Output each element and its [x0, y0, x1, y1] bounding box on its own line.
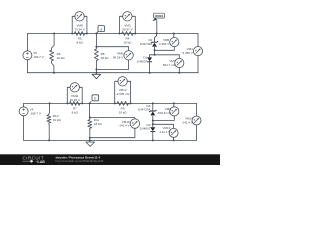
svg-text:169.7 V: 169.7 V: [33, 55, 43, 59]
voltmeter VM10: [130, 119, 139, 128]
wire VM3 loop left: [120, 16, 123, 33]
svg-text:NODES: NODES: [155, 15, 164, 18]
svg-text:18 kΩ: 18 kΩ: [94, 122, 103, 126]
svg-text:a: a: [100, 28, 102, 32]
node R6-bottom: [53, 72, 55, 74]
svg-text:1N4733A: 1N4733A: [138, 108, 151, 112]
node mid-bottom (bottom circuit): [89, 139, 91, 141]
svg-text:LAB: LAB: [38, 160, 46, 164]
diode D1: [147, 61, 152, 63]
svg-text:http://circuitlab.com/c/53dfe5: http://circuitlab.com/c/53dfe5e9edc4b: [56, 159, 104, 163]
wire D1 top lead: [149, 55, 151, 57]
svg-text:5.456 V: 5.456 V: [182, 51, 192, 55]
node D4-VM13: [152, 123, 154, 125]
voltmeter VM13: [169, 128, 178, 137]
wire R10 branch bottom: [48, 124, 50, 140]
voltmeter VM11: [70, 83, 79, 92]
wire V4 bottom lead: [23, 115, 25, 140]
resistor R8: [94, 47, 98, 63]
svg-text:8 kΩ: 8 kΩ: [72, 110, 79, 114]
node R4-right: [134, 33, 136, 35]
wire VM10 loop top: [90, 118, 135, 119]
wire D3 bottom lead: [152, 132, 154, 140]
voltage source V5: [23, 51, 32, 60]
svg-text:b: b: [94, 97, 96, 101]
node VM7-bottom: [178, 72, 180, 74]
wire VM5 bottom lead: [155, 47, 175, 51]
node tag b: [92, 95, 99, 101]
node D2-midline: [154, 54, 156, 56]
flag pole: [156, 20, 158, 33]
resistor R9: [115, 101, 131, 105]
voltage source V4: [19, 107, 28, 116]
wire V5 top lead: [26, 34, 28, 52]
svg-text:8 kΩ: 8 kΩ: [76, 40, 83, 44]
svg-text:1N4733A: 1N4733A: [140, 42, 153, 46]
diode D4 (zener): [149, 110, 156, 112]
wire mid branch bottom: [95, 63, 97, 73]
svg-text:49.29 V: 49.29 V: [70, 98, 80, 102]
voltmeter VM7: [175, 58, 184, 67]
wire V5 bottom lead: [26, 59, 28, 72]
svg-text:-504.8 mV: -504.8 mV: [157, 111, 171, 115]
wire VM12 loop right: [127, 81, 130, 103]
node VM13-bottom: [173, 139, 175, 141]
svg-text:602.7 mV: 602.7 mV: [163, 63, 176, 67]
node VM10-bottom: [89, 137, 91, 139]
wire VM12 loop left: [115, 81, 118, 103]
node R6-top: [53, 33, 55, 35]
node D2-VM5: [154, 49, 156, 51]
wire D4 top lead: [152, 103, 154, 110]
resistor R7: [67, 101, 82, 105]
svg-text:1N4007: 1N4007: [140, 127, 151, 131]
wire VM13 bottom lead: [173, 137, 175, 140]
resistor R4: [120, 32, 136, 36]
resistor R10: [47, 114, 51, 125]
voltmeter VM3: [123, 12, 132, 21]
diode D2 (zener): [151, 41, 158, 43]
svg-text:18 kΩ: 18 kΩ: [101, 56, 110, 60]
wire VM4 bottom lead: [197, 56, 199, 73]
svg-text:-141.4 V: -141.4 V: [182, 120, 193, 124]
node VM10-top: [89, 117, 91, 119]
svg-text:-169.7 V: -169.7 V: [30, 111, 41, 115]
wire VM9 bottom lead: [153, 116, 175, 121]
svg-text:10 kΩ: 10 kΩ: [57, 56, 66, 60]
node R7-left: [66, 102, 68, 104]
node R7-right: [81, 102, 83, 104]
svg-text:1N4007: 1N4007: [137, 59, 148, 63]
voltmeter VM12: [118, 77, 127, 86]
wire mid branch top: [95, 34, 97, 47]
node tag a leader: [96, 32, 98, 34]
node VM6-bottom: [95, 68, 97, 70]
wire VM8 loop right: [84, 16, 87, 33]
voltmeter VM5: [170, 38, 179, 47]
node a junction: [95, 33, 97, 35]
voltmeter VM6: [124, 51, 133, 60]
node R9-left: [114, 102, 116, 104]
wire VM8 loop left: [72, 16, 75, 33]
svg-text:73.94 V: 73.94 V: [74, 27, 84, 31]
wire VM11 loop left: [67, 87, 70, 103]
node VM6-top: [95, 46, 97, 48]
flag box NODES: [154, 13, 165, 18]
wire VM4 top lead: [197, 34, 199, 47]
wire VM11 loop right: [80, 87, 83, 103]
footer bar: [0, 154, 220, 165]
wire D1 bottom lead: [149, 62, 151, 72]
wire D4 bottom lead: [152, 116, 154, 127]
ground (bottom circuit): [89, 140, 91, 142]
svg-text:4.366 V: 4.366 V: [159, 42, 169, 46]
node tag b leader: [90, 102, 92, 104]
wire D2 top lead: [155, 34, 157, 43]
resistor R6: [50, 48, 54, 63]
wire VM9 top lead: [173, 103, 175, 106]
node D4-VM9: [152, 120, 154, 122]
svg-text:-141.1 V: -141.1 V: [159, 130, 170, 134]
svg-text:90.97 V: 90.97 V: [122, 27, 132, 31]
node VM5-top: [173, 33, 175, 35]
wire V4 top lead: [23, 103, 25, 107]
node VM9-top: [173, 102, 175, 104]
wire top rail (bottom circuit): [24, 102, 197, 104]
node D4-top: [152, 102, 154, 104]
voltmeter VM4: [193, 47, 202, 56]
wire VM6 loop bottom: [96, 60, 128, 69]
wire VM13 top lead: [153, 124, 174, 128]
resistor R5: [72, 32, 87, 36]
voltmeter VM9: [170, 107, 179, 116]
voltmeter VM8: [75, 12, 84, 21]
node R9-right: [130, 102, 132, 104]
svg-text:10 kΩ: 10 kΩ: [119, 110, 128, 114]
node flag junction: [156, 33, 158, 35]
wire bottom rail (bottom circuit): [24, 139, 197, 141]
wire mid branch top (bottom circuit): [89, 103, 91, 117]
wire VM14 bottom lead: [196, 125, 198, 140]
svg-text:-2.535 mV: -2.535 mV: [116, 92, 130, 96]
wire bottom rail (top circuit): [27, 72, 198, 74]
node R10-top: [49, 102, 51, 104]
wire mid node line: [150, 54, 180, 56]
node R5-right: [86, 33, 88, 35]
wire mid branch bottom (bottom circuit): [89, 131, 91, 141]
node R10-bottom: [48, 139, 50, 141]
svg-text:10 kΩ: 10 kΩ: [123, 40, 132, 44]
svg-text:10 kΩ: 10 kΩ: [53, 118, 62, 122]
wire VM7 bottom lead: [178, 68, 180, 73]
wire VM3 loop right: [132, 16, 135, 33]
svg-text:-141.4 V: -141.4 V: [118, 124, 129, 128]
wire VM6 loop top: [96, 47, 128, 51]
resistor R11: [88, 118, 92, 131]
wire VM10 loop bottom: [90, 128, 135, 137]
wire R6 branch top: [52, 34, 55, 48]
node D3-bottom: [152, 139, 154, 141]
node tag a: [98, 26, 105, 32]
wire VM14 top lead: [196, 103, 198, 116]
voltmeter VM14: [192, 116, 201, 125]
ground (top circuit): [95, 73, 97, 75]
node D1-bottom: [149, 72, 151, 74]
wire VM7 top lead: [178, 55, 180, 59]
node b junction: [89, 102, 91, 104]
flag pointer: [153, 18, 158, 21]
wire VM5 top lead: [173, 34, 175, 38]
node mid-bottom: [95, 72, 97, 74]
svg-text:96.18 V: 96.18 V: [113, 55, 123, 59]
wire top rail (top circuit): [27, 33, 198, 35]
node R5-left: [71, 33, 73, 35]
diode D3: [150, 131, 155, 133]
wire R10 branch top: [48, 103, 51, 113]
node R4-left: [119, 33, 121, 35]
wire D2 bottom lead: [154, 47, 156, 55]
wire R6 branch bottom: [52, 63, 54, 73]
